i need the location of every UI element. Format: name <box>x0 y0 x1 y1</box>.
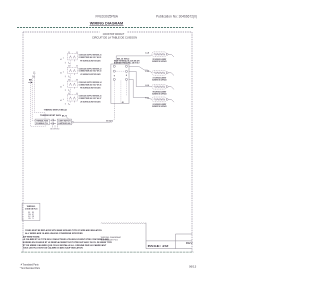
element E4 labels <box>145 98 167 108</box>
thermostat output circle <box>72 121 74 123</box>
thermostat bottom pins <box>53 125 58 127</box>
svg-text:LE CALIBRE ET LE TYPE DES COND: LE CALIBRE ET LE TYPE DES CONDUCTEURS UT… <box>23 238 109 241</box>
junction circle at wire end <box>111 120 113 122</box>
svg-text:RR SURFACE UNIT SW 240V: RR SURFACE UNIT SW 240V <box>80 87 101 90</box>
terminal block P43 <box>111 64 129 103</box>
svg-text:* Non Illustrated Parts: * Non Illustrated Parts <box>20 266 41 270</box>
title block bottom border <box>146 248 192 250</box>
svg-text:BU: BU <box>28 216 30 218</box>
svg-text:BK: BK <box>29 79 33 81</box>
svg-text:CONNECTEUR 240 VOLT WH-15: CONNECTEUR 240 VOLT WH-15 <box>79 83 102 86</box>
svg-text:GN: GN <box>28 218 30 220</box>
svg-text:BK WH RD: BK WH RD <box>50 129 60 131</box>
svg-text:Publication No: 30466672(0): Publication No: 30466672(0) <box>156 14 197 18</box>
switch S1 chain wire <box>70 60 72 68</box>
svg-text:L2-6: L2-6 <box>145 85 149 87</box>
svg-text:P-32: P-32 <box>145 98 149 100</box>
switch S1 plug box <box>65 52 78 64</box>
svg-text:# Translated Parts: # Translated Parts <box>21 262 39 266</box>
svg-text:BK: BK <box>28 212 30 214</box>
thermostat title <box>40 108 68 117</box>
svg-text:THERMOSTAT 240V: THERMOSTAT 240V <box>40 114 62 117</box>
title block left divider <box>145 223 147 248</box>
supply wire L1 vertical <box>34 74 45 119</box>
switch S1 labels <box>79 54 102 63</box>
svg-text:L1-8: L1-8 <box>145 53 149 55</box>
surface element E1 <box>152 52 174 57</box>
REV cell <box>176 234 193 249</box>
svg-text:RF SURFACE UNIT SW 240V: RF SURFACE UNIT SW 240V <box>80 59 101 62</box>
element E2 labels <box>145 71 167 81</box>
legend box <box>22 203 40 220</box>
svg-text:NORMES EN VIGUEUR ET LE REMPLA: NORMES EN VIGUEUR ET LE REMPLACEMENT DOI… <box>23 241 113 244</box>
svg-text:ELEMENT DE SURFACE: ELEMENT DE SURFACE <box>152 92 167 95</box>
svg-text:BORNIER PRINCIPAL 240 VOLT: BORNIER PRINCIPAL 240 VOLT <box>114 62 140 65</box>
svg-text:LR SURFACE UNIT SW 240V: LR SURFACE UNIT SW 240V <box>80 100 101 103</box>
svg-text:SCHEMA DE FILS: SCHEMA DE FILS <box>101 238 119 241</box>
switch S1 side pin label <box>60 58 70 65</box>
svg-text:LF SURFACE UNIT SW 240V: LF SURFACE UNIT SW 240V <box>80 73 101 76</box>
outer frame bottom border <box>21 251 193 253</box>
svg-text:TOUS LES FILS SONT DE CALIBRE: TOUS LES FILS SONT DE CALIBRE 18 AWG SAU… <box>23 247 83 250</box>
svg-text:YL: YL <box>32 218 34 220</box>
svg-text:FUSES MUST BE REPLACED WITH SA: FUSES MUST BE REPLACED WITH SAME SIZE AN… <box>25 229 102 232</box>
switch S4 plug box <box>65 93 78 105</box>
svg-text:WIRING DIAGRAM: WIRING DIAGRAM <box>90 20 123 25</box>
title block small labels <box>101 236 122 241</box>
switch S2 labels <box>79 67 102 76</box>
ground tick with junction dot <box>28 81 32 83</box>
switch S2 plug box <box>65 66 78 78</box>
wire W1 block to element E1 <box>116 55 152 64</box>
surface element E2 <box>152 70 174 75</box>
inner box right border <box>191 32 193 252</box>
svg-text:a: a <box>69 104 70 106</box>
switch S2 chain wire <box>70 74 72 82</box>
svg-text:b1: b1 <box>60 86 62 88</box>
switch S3 side pin label <box>60 85 70 92</box>
svg-text:GY: GY <box>32 214 34 216</box>
terminal circles right column <box>125 65 127 80</box>
legend table <box>28 212 35 220</box>
wire block down to thermostat <box>112 103 114 120</box>
svg-text:CONNECTEUR 240 VOLT WH-11: CONNECTEUR 240 VOLT WH-11 <box>79 56 102 59</box>
svg-text:43: 43 <box>122 101 124 104</box>
sawtooth tear line <box>101 223 146 224</box>
svg-text:CONNECTEUR 240 VOLT WH-17: CONNECTEUR 240 VOLT WH-17 <box>79 97 102 100</box>
thermostat left box <box>35 119 49 125</box>
wire W3 block to element E3 <box>129 71 152 86</box>
svg-text:CIRCUIT DE LA TABLE DE CUISSON: CIRCUIT DE LA TABLE DE CUISSON <box>92 35 137 39</box>
svg-text:ELEMENT DE SURFACE: ELEMENT DE SURFACE <box>152 105 167 108</box>
svg-text:CONNECTEUR 240 VOLT WH-13: CONNECTEUR 240 VOLT WH-13 <box>79 70 102 73</box>
svg-text:ALL WIRES ARE 18 AWG UNLESS OT: ALL WIRES ARE 18 AWG UNLESS OTHERWISE SP… <box>25 232 83 235</box>
svg-text:WH: WH <box>28 214 31 216</box>
terminal junction dots <box>114 75 115 76</box>
svg-text:b1: b1 <box>60 73 62 75</box>
svg-text:06/13: 06/13 <box>189 265 197 268</box>
wire W2 block to element E2 <box>129 66 152 72</box>
svg-text:FUSIBLE TH.: FUSIBLE TH. <box>36 123 49 125</box>
outer frame top border <box>17 27 193 29</box>
svg-text:P-30: P-30 <box>145 71 149 73</box>
svg-text:a: a <box>69 77 70 79</box>
switch S4 side pin label <box>60 99 70 106</box>
inner box left border <box>22 32 24 252</box>
switch S2 side pin label <box>60 71 70 78</box>
svg-text:CODE DE FILS: CODE DE FILS <box>25 208 39 210</box>
svg-text:a: a <box>69 90 70 92</box>
svg-text:ET DE MEME CALIBRE QUE CELUI I: ET DE MEME CALIBRE QUE CELUI INSTALLE A … <box>23 244 107 247</box>
element E3 labels <box>145 85 167 95</box>
inner box top border <box>23 31 192 33</box>
thermostat pointer <box>66 117 69 120</box>
svg-text:PAGE: 2/2: PAGE: 2/2 <box>148 244 169 248</box>
supply wire labels L1 N BK <box>29 72 36 81</box>
wire thermostat to block <box>74 121 111 123</box>
svg-text:ATTENTION:: ATTENTION: <box>23 235 41 238</box>
svg-text:b1: b1 <box>60 59 62 61</box>
notes block <box>23 229 113 250</box>
svg-text:ELEMENT DE SURFACE: ELEMENT DE SURFACE <box>152 60 167 63</box>
svg-text:THERMO SWITCH BK-44: THERMO SWITCH BK-44 <box>44 108 68 111</box>
switch S3 plug box <box>65 79 78 91</box>
supply wire BK vertical <box>30 81 45 126</box>
svg-text:FFED3025PBA: FFED3025PBA <box>96 14 119 18</box>
terminal block internal wires <box>114 71 126 103</box>
title block horizontal divider <box>146 240 192 242</box>
thermostat contact element <box>51 119 56 125</box>
svg-text:b1: b1 <box>60 100 62 102</box>
thermostat right box <box>57 119 71 125</box>
surface element E4 <box>152 97 174 102</box>
svg-text:N·|: N·| <box>32 76 35 78</box>
terminal block top labels <box>114 59 140 104</box>
surface element E3 <box>152 84 174 89</box>
svg-text:a: a <box>69 63 70 65</box>
terminal circles left column <box>113 65 115 80</box>
svg-text:LIMITEUR 240: LIMITEUR 240 <box>58 122 70 125</box>
switch S4 labels <box>79 95 102 104</box>
svg-text:ELEMENT DE SURFACE: ELEMENT DE SURFACE <box>152 78 167 81</box>
element E1 labels <box>145 53 167 63</box>
svg-text:COOKTOP CIRCUIT: COOKTOP CIRCUIT <box>103 32 125 36</box>
switch S3 labels <box>79 81 102 90</box>
svg-text:BK-15 WH-2: BK-15 WH-2 <box>117 58 129 60</box>
svg-text:REV:: REV: <box>186 241 194 245</box>
supply wire N vertical <box>32 78 35 120</box>
switch S3 chain wire <box>70 87 72 95</box>
switch S4 chain wire <box>70 101 72 103</box>
wire W4 block to element E4 <box>129 79 152 99</box>
